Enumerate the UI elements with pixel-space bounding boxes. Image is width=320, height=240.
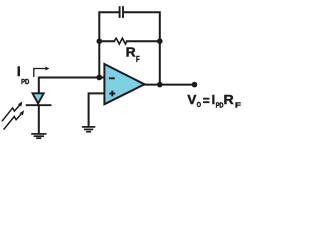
svg-text:I: I <box>212 93 216 107</box>
svg-text:PD: PD <box>21 77 30 86</box>
svg-text:V: V <box>187 93 197 107</box>
svg-text:R: R <box>126 46 136 60</box>
svg-text:R: R <box>224 93 234 107</box>
svg-text:O: O <box>197 100 202 109</box>
svg-text:=: = <box>203 94 210 108</box>
svg-text:F: F <box>136 54 140 64</box>
svg-text:F: F <box>235 101 241 110</box>
